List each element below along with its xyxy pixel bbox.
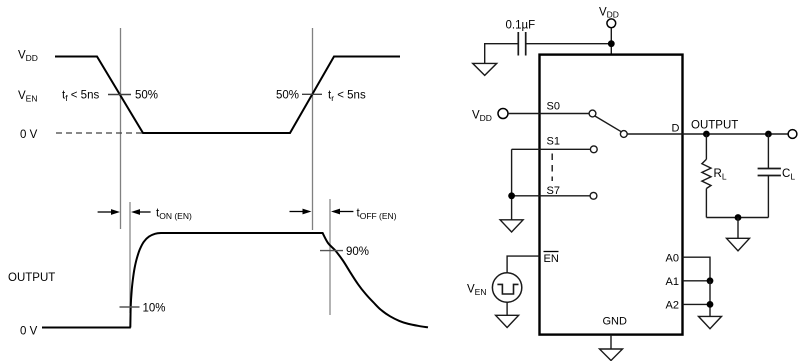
wire OUTPUT to CL [767, 134, 769, 169]
IC box [540, 55, 683, 335]
wire OUTPUT to RL [705, 134, 707, 159]
junction dot A2 [707, 301, 714, 308]
svg-text:A1: A1 [666, 276, 679, 288]
svg-text:50%: 50% [276, 90, 299, 102]
wire cap to ground [485, 44, 519, 64]
svg-text:D: D [672, 123, 680, 135]
wire bypass cap to VDD node [526, 43, 612, 45]
wire A1 to A2 bus [709, 281, 711, 317]
ground (S bus) [500, 220, 523, 232]
wire VDD terminal to IC top [610, 28, 612, 55]
switch contact S7 [590, 192, 597, 199]
ground (VEN) [496, 315, 519, 327]
reference line: output turn-on (10% crossing) [129, 202, 131, 313]
resistor RL [702, 159, 711, 188]
reference line: output turn-off (90% crossing) [329, 199, 331, 315]
output terminal [788, 130, 797, 139]
wire S7 [512, 195, 590, 197]
junction dot A1 [707, 277, 714, 284]
svg-text:tr < 5ns: tr < 5ns [328, 90, 366, 104]
dashed 0V baseline of VEN [56, 132, 143, 134]
svg-text:A0: A0 [666, 253, 679, 265]
svg-text:tON (EN): tON (EN) [156, 208, 192, 222]
svg-text:GND: GND [603, 316, 628, 328]
pulse source VEN [492, 273, 521, 302]
switch common contact [620, 131, 627, 138]
svg-text:S0: S0 [547, 101, 560, 113]
svg-text:tf < 5ns: tf < 5ns [62, 90, 99, 104]
wire RL bottom [705, 189, 707, 218]
wire VDD terminal to S0 [508, 113, 589, 115]
junction dot OUTPUT / RL [703, 131, 710, 138]
wire CL bottom [767, 176, 769, 218]
tick 50% left [108, 94, 131, 96]
arrow left at tON [139, 211, 151, 213]
capacitor C1 0.1uF [517, 32, 519, 56]
svg-text:EN: EN [544, 253, 559, 265]
junction dot S7 / bus [508, 192, 515, 199]
svg-text:CL: CL [782, 168, 795, 182]
capacitor CL [758, 168, 781, 170]
ground (GND pin) [600, 349, 623, 361]
wire A2 [683, 303, 711, 305]
svg-text:S1: S1 [547, 136, 560, 148]
svg-text:OUTPUT: OUTPUT [8, 272, 55, 284]
switch contact S1 [590, 146, 597, 153]
wire GND pin to ground [610, 335, 612, 349]
arrow right at tOFF [290, 211, 304, 213]
switch blade [595, 116, 621, 132]
wire S1-S7 bus to ground [511, 149, 513, 220]
tick 90% [320, 250, 343, 252]
wire VEN to ground [506, 302, 508, 315]
ground (load) [727, 238, 750, 251]
wire output 0V flat [42, 327, 131, 329]
svg-text:VDD: VDD [599, 7, 619, 20]
power terminal VDD top [607, 19, 616, 28]
ground (address pins) [699, 316, 722, 328]
reference line: enable falling edge (50% crossing) [120, 28, 122, 229]
arrow left at tOFF [339, 211, 353, 213]
svg-text:VDD: VDD [18, 50, 38, 64]
wire S1 [512, 148, 591, 150]
input terminal VDD left [498, 109, 508, 119]
ellipsis dashed S2..S6 [551, 154, 553, 182]
svg-text:0 V: 0 V [20, 326, 38, 338]
svg-text:VEN: VEN [18, 90, 37, 104]
tick 10% [120, 306, 140, 308]
wire load common to ground [737, 218, 739, 239]
reference line: enable rising edge (50% crossing) [312, 28, 314, 230]
waveform OUTPUT rise, flat, decay [130, 233, 428, 328]
svg-text:0 V: 0 V [20, 129, 38, 141]
svg-text:A2: A2 [666, 300, 679, 312]
svg-text:VDD: VDD [472, 110, 492, 124]
svg-text:10%: 10% [143, 303, 166, 315]
wire load common [706, 217, 768, 219]
svg-text:tOFF (EN): tOFF (EN) [357, 208, 397, 222]
wire D to OUTPUT [627, 133, 788, 135]
svg-text:50%: 50% [135, 90, 158, 102]
ground (bypass cap) [473, 63, 497, 75]
svg-text:VEN: VEN [467, 284, 486, 298]
svg-text:90%: 90% [346, 246, 369, 258]
arrow right at tON [98, 211, 112, 213]
tick 50% right [302, 93, 322, 95]
svg-text:OUTPUT: OUTPUT [691, 120, 738, 132]
wire A0 with bend [683, 257, 711, 281]
svg-text:RL: RL [714, 168, 727, 182]
wire A1 [683, 280, 711, 282]
junction dot load common [735, 214, 742, 221]
switch pole S0 contact [589, 110, 596, 117]
waveform VEN enable pulse [55, 57, 400, 134]
junction dot VDD / bypass [608, 40, 615, 47]
svg-text:0.1µF: 0.1µF [506, 20, 536, 32]
wire EN to VEN source [507, 256, 539, 273]
junction dot OUTPUT / CL [765, 131, 772, 138]
